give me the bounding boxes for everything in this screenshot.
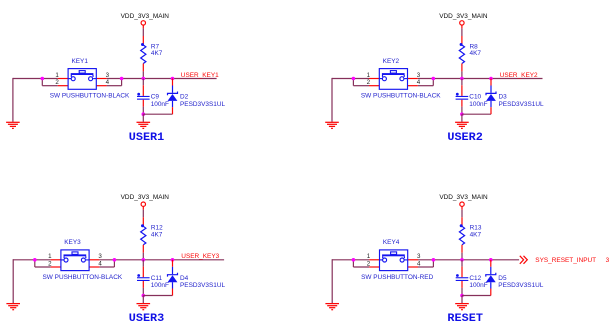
off-sheet connector SYS_RESET_INPUT xyxy=(520,256,596,264)
junction xyxy=(142,258,146,262)
junction xyxy=(142,294,146,298)
wire xyxy=(142,28,144,36)
wire xyxy=(41,79,43,86)
junction xyxy=(41,77,45,81)
wire xyxy=(418,78,543,80)
svg-text:SW PUSHBUTTON-BLACK: SW PUSHBUTTON-BLACK xyxy=(43,274,123,281)
wire xyxy=(142,114,144,122)
svg-text:100nF: 100nF xyxy=(469,282,487,289)
svg-text:USER_KEY2: USER_KEY2 xyxy=(500,72,538,79)
svg-text:VDD_3V3_MAIN: VDD_3V3_MAIN xyxy=(439,194,488,201)
wire xyxy=(142,107,144,115)
svg-text:3: 3 xyxy=(106,72,110,79)
wire xyxy=(99,266,114,268)
wire xyxy=(461,253,463,260)
wire xyxy=(331,78,333,122)
svg-text:USER2: USER2 xyxy=(447,132,483,144)
svg-text:PESD3V3S1UL: PESD3V3S1UL xyxy=(499,101,545,108)
pushbutton KEY2 xyxy=(361,58,441,100)
junction xyxy=(489,77,493,81)
TVS diode D5 PESD3V3S1UL xyxy=(486,260,544,296)
svg-text:D5: D5 xyxy=(498,275,507,282)
svg-text:SW PUSHBUTTON-BLACK: SW PUSHBUTTON-BLACK xyxy=(361,93,441,100)
wire xyxy=(418,85,434,87)
wire xyxy=(353,266,369,268)
junction xyxy=(432,258,436,262)
junction xyxy=(352,77,356,81)
junction xyxy=(489,258,493,262)
svg-text:2: 2 xyxy=(55,79,59,86)
pushbutton KEY4 xyxy=(361,239,433,281)
capacitor C9 100nF xyxy=(137,85,169,108)
junction xyxy=(142,112,146,116)
svg-text:C9: C9 xyxy=(151,94,160,101)
svg-text:KEY3: KEY3 xyxy=(64,239,81,246)
pushbutton KEY3 xyxy=(43,239,123,281)
wire xyxy=(107,85,122,87)
wire xyxy=(143,295,172,297)
ground xyxy=(6,122,20,128)
wire xyxy=(332,259,369,261)
ground xyxy=(455,122,469,128)
wire xyxy=(121,79,123,86)
svg-text:C12: C12 xyxy=(469,275,481,282)
svg-text:VDD_3V3_MAIN: VDD_3V3_MAIN xyxy=(439,13,488,20)
wire xyxy=(113,260,115,267)
junction xyxy=(142,77,146,81)
wire xyxy=(143,113,172,115)
wire xyxy=(461,210,463,218)
svg-text:USER3: USER3 xyxy=(129,313,165,325)
junction xyxy=(460,294,464,298)
svg-text:3: 3 xyxy=(606,257,610,264)
svg-text:1: 1 xyxy=(367,253,371,260)
svg-text:4: 4 xyxy=(106,79,110,86)
wire xyxy=(12,78,14,122)
ground xyxy=(6,304,20,310)
svg-text:SW PUSHBUTTON-RED: SW PUSHBUTTON-RED xyxy=(361,274,433,281)
wire xyxy=(13,259,50,261)
ground xyxy=(455,304,469,310)
resistor R8 4K7 xyxy=(459,36,481,71)
svg-text:D2: D2 xyxy=(180,94,189,101)
wire xyxy=(332,78,369,80)
wire xyxy=(13,78,58,80)
wire xyxy=(142,79,144,86)
svg-text:KEY1: KEY1 xyxy=(71,58,88,65)
junction xyxy=(432,77,436,81)
junction xyxy=(352,258,356,262)
wire xyxy=(142,71,144,78)
power port VDD_3V3_MAIN xyxy=(121,13,170,29)
svg-text:4K7: 4K7 xyxy=(470,231,482,238)
svg-text:4: 4 xyxy=(417,260,421,267)
ground xyxy=(137,122,151,128)
svg-text:USER_KEY3: USER_KEY3 xyxy=(181,253,219,260)
svg-text:4: 4 xyxy=(417,79,421,86)
ground xyxy=(137,304,151,310)
wire xyxy=(353,85,369,87)
svg-text:PESD3V3S1UL: PESD3V3S1UL xyxy=(180,282,226,289)
resistor R13 4K7 xyxy=(459,217,481,252)
svg-text:3: 3 xyxy=(417,72,421,79)
wire xyxy=(331,259,333,303)
resistor R12 4K7 xyxy=(141,217,163,252)
wire xyxy=(461,114,463,122)
svg-text:1: 1 xyxy=(367,72,371,79)
junction xyxy=(460,77,464,81)
svg-text:4K7: 4K7 xyxy=(151,231,163,238)
wire xyxy=(142,210,144,218)
svg-text:USER1: USER1 xyxy=(129,132,165,144)
svg-text:4: 4 xyxy=(98,260,102,267)
wire xyxy=(432,260,434,267)
junction xyxy=(120,77,124,81)
wire xyxy=(142,260,144,267)
junction xyxy=(171,258,175,262)
svg-text:SYS_RESET_INPUT: SYS_RESET_INPUT xyxy=(535,257,596,264)
wire xyxy=(142,288,144,296)
svg-text:C10: C10 xyxy=(469,94,481,101)
svg-text:1: 1 xyxy=(55,72,59,79)
svg-text:RESET: RESET xyxy=(447,313,483,325)
svg-text:2: 2 xyxy=(367,79,371,86)
svg-text:D3: D3 xyxy=(499,94,508,101)
svg-text:USER_KEY1: USER_KEY1 xyxy=(181,72,219,79)
junction xyxy=(460,258,464,262)
svg-text:100nF: 100nF xyxy=(151,101,169,108)
svg-text:3: 3 xyxy=(98,253,102,260)
svg-text:SW PUSHBUTTON-BLACK: SW PUSHBUTTON-BLACK xyxy=(50,93,130,100)
wire xyxy=(461,260,463,267)
svg-text:KEY4: KEY4 xyxy=(383,239,400,246)
svg-text:D4: D4 xyxy=(180,275,189,282)
TVS diode D2 PESD3V3S1UL xyxy=(168,79,226,115)
wire xyxy=(352,260,354,267)
svg-text:100nF: 100nF xyxy=(469,101,487,108)
wire xyxy=(352,79,354,86)
wire xyxy=(461,79,463,86)
svg-text:4K7: 4K7 xyxy=(470,50,482,57)
capacitor C12 100nF xyxy=(456,267,488,290)
wire xyxy=(461,288,463,296)
wire xyxy=(34,260,36,267)
svg-text:1: 1 xyxy=(48,253,52,260)
power port VDD_3V3_MAIN xyxy=(439,194,488,210)
power port VDD_3V3_MAIN xyxy=(121,194,170,210)
svg-text:4K7: 4K7 xyxy=(151,50,163,57)
svg-text:KEY2: KEY2 xyxy=(383,58,400,65)
power port VDD_3V3_MAIN xyxy=(439,13,488,29)
resistor R7 4K7 xyxy=(141,36,163,71)
wire xyxy=(432,79,434,86)
wire xyxy=(418,259,519,261)
wire xyxy=(462,295,491,297)
wire xyxy=(142,296,144,304)
svg-text:PESD3V3S1UL: PESD3V3S1UL xyxy=(498,282,544,289)
wire xyxy=(107,78,217,80)
wire xyxy=(461,296,463,304)
junction xyxy=(460,112,464,116)
pushbutton KEY1 xyxy=(50,58,130,100)
TVS diode D3 PESD3V3S1UL xyxy=(486,79,544,115)
wire xyxy=(461,28,463,36)
TVS diode D4 PESD3V3S1UL xyxy=(168,260,226,296)
capacitor C10 100nF xyxy=(456,85,488,108)
wire xyxy=(35,266,51,268)
ground xyxy=(325,304,339,310)
capacitor C11 100nF xyxy=(137,267,169,290)
wire xyxy=(461,107,463,115)
junction xyxy=(171,77,175,81)
svg-text:3: 3 xyxy=(417,253,421,260)
svg-text:2: 2 xyxy=(367,260,371,267)
junction xyxy=(33,258,37,262)
wire xyxy=(42,85,58,87)
wire xyxy=(461,71,463,78)
wire xyxy=(99,259,224,261)
svg-text:VDD_3V3_MAIN: VDD_3V3_MAIN xyxy=(121,194,170,201)
wire xyxy=(12,259,14,303)
svg-text:PESD3V3S1UL: PESD3V3S1UL xyxy=(180,101,226,108)
svg-text:C11: C11 xyxy=(151,275,163,282)
wire xyxy=(418,266,433,268)
wire xyxy=(462,113,491,115)
junction xyxy=(113,258,117,262)
wire xyxy=(142,253,144,260)
svg-text:VDD_3V3_MAIN: VDD_3V3_MAIN xyxy=(121,13,170,20)
ground xyxy=(325,122,339,128)
svg-text:2: 2 xyxy=(48,260,52,267)
svg-text:100nF: 100nF xyxy=(151,282,169,289)
